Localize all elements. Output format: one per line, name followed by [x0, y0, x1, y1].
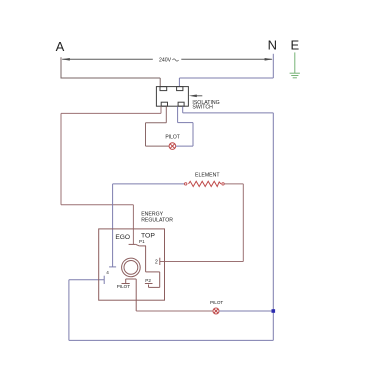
svg-text:A: A [56, 39, 65, 54]
svg-text:P1: P1 [139, 239, 145, 244]
pilot lamp 2 [213, 308, 219, 314]
junction dot [272, 309, 276, 313]
svg-text:E: E [290, 38, 299, 53]
svg-text:REGULATOR: REGULATOR [141, 218, 173, 224]
wire to pilot lamp 2 [136, 310, 213, 312]
wire element left [109, 184, 184, 267]
wire pilot 2 to neutral rail [219, 310, 273, 312]
wire element right to terminal 2 [160, 184, 244, 262]
terminal 2 [159, 258, 161, 265]
element terminal left [185, 183, 187, 185]
switch P1 [129, 244, 146, 272]
svg-text:4: 4 [106, 270, 109, 275]
dimension line 240V [62, 58, 272, 60]
sine symbol [173, 59, 179, 61]
svg-text:2: 2 [155, 260, 158, 266]
svg-text:PILOT: PILOT [210, 300, 223, 305]
svg-text:PILOT: PILOT [117, 284, 130, 289]
pilot lamp 1 [169, 143, 176, 150]
earth symbol E [290, 52, 300, 77]
contact P2 [145, 283, 153, 285]
isolating switch body [156, 87, 188, 107]
dimension arrow left [62, 58, 70, 61]
svg-text:P2: P2 [145, 278, 151, 283]
element terminal right [222, 183, 224, 185]
isolating switch pointer arrow [196, 95, 202, 97]
svg-text:ELEMENT: ELEMENT [195, 173, 220, 179]
wire P1 to P2 elbow [146, 272, 160, 288]
svg-text:EGO: EGO [115, 234, 130, 241]
svg-text:240V: 240V [159, 57, 172, 63]
svg-text:PILOT: PILOT [165, 134, 179, 140]
dimension arrow right [265, 58, 273, 61]
svg-text:SWITCH: SWITCH [192, 105, 213, 111]
wire live A feed [61, 57, 161, 86]
element resistor [189, 181, 221, 186]
wire pilot 1 to neutral [176, 106, 193, 146]
wire neutral N feed [179, 54, 273, 87]
wire neutral return [69, 106, 273, 340]
energy regulator box [99, 229, 165, 300]
svg-text:N: N [268, 38, 277, 53]
knob EGO [122, 258, 141, 277]
wire switched live [61, 106, 161, 244]
pilot terminal [122, 279, 137, 311]
wire to pilot 1 [146, 106, 170, 146]
